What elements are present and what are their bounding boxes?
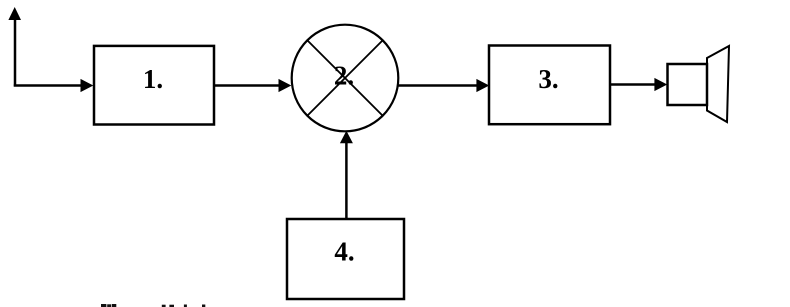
wire: block 3 to speaker — [610, 78, 667, 91]
antenna input arrow (vertical, pointing up) — [8, 7, 21, 87]
mixer X diagonal 2 — [307, 40, 382, 115]
caption text fragment (letter tops clipped at bottom edge) — [101, 304, 205, 307]
block 1 (RF stage) — [94, 46, 214, 125]
svg-text:2.: 2. — [334, 60, 354, 90]
wire: block 1 to mixer — [214, 79, 291, 92]
wire: block 4 up to mixer — [340, 131, 353, 219]
svg-text:4.: 4. — [334, 237, 354, 267]
mixer circle U2 — [292, 25, 399, 132]
speaker driver box — [668, 64, 708, 105]
svg-text:3.: 3. — [538, 64, 558, 94]
wire: antenna to block 1 — [14, 79, 94, 92]
block 4 (local oscillator) — [287, 219, 404, 299]
mixer X diagonal 1 — [307, 40, 382, 115]
speaker horn — [707, 46, 729, 122]
block 3 (IF/audio stage) — [489, 46, 610, 125]
wire: mixer to block 3 — [399, 79, 490, 92]
svg-text:1.: 1. — [143, 64, 163, 94]
